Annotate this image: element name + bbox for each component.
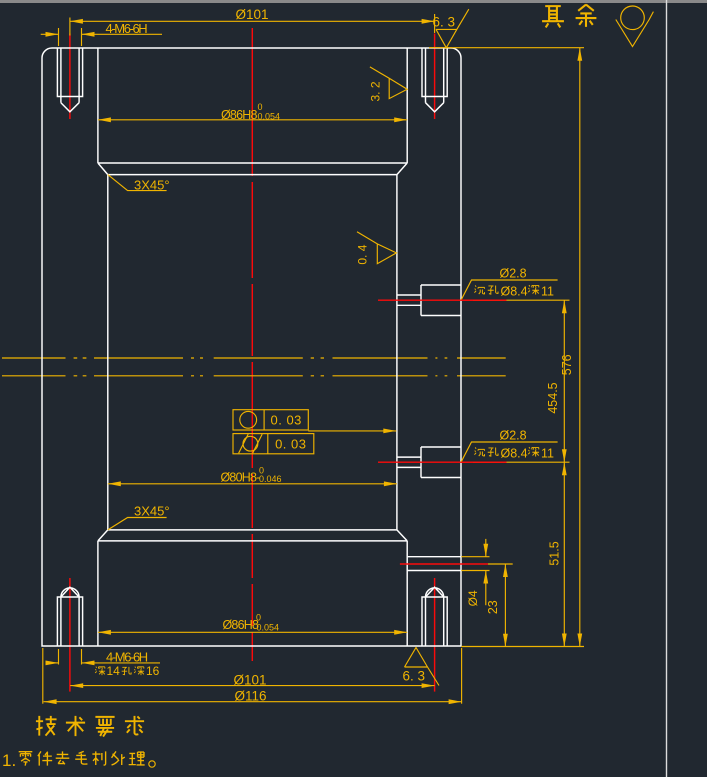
- side hole 1: Ø2.8 with counterbore Ø8.4 (white): [397, 285, 461, 316]
- svg-text:Ø80H8-: Ø80H8-: [221, 471, 261, 485]
- dimension Ø116 (bottom): [43, 648, 462, 704]
- M6 tapped hole top-left: [57, 48, 82, 112]
- dimension 454.5 and 51.5 (right chained): [546, 300, 564, 646]
- surface finish 6.3 (bottom face): [403, 648, 440, 686]
- svg-text:11: 11: [541, 284, 554, 298]
- bore Ø86 top-left wall: [97, 48, 99, 163]
- dimension Ø101 (top): [70, 7, 435, 36]
- dimension 23 (side hole 3 to bottom): [486, 564, 513, 647]
- svg-text:3X45°: 3X45°: [134, 504, 170, 519]
- bore Ø86 top-right wall: [406, 48, 408, 163]
- surface finish 3.2 (Ø86 top bore wall): [368, 67, 407, 102]
- svg-text:Ø86H8: Ø86H8: [223, 618, 259, 632]
- svg-text:Ø86H8: Ø86H8: [221, 108, 257, 122]
- dimension 576 (right overall): [560, 48, 580, 647]
- side hole 3: Ø4 (white): [407, 557, 461, 571]
- svg-text:4-M6-6H: 4-M6-6H: [106, 650, 148, 665]
- bore Ø80 right wall: [396, 175, 398, 530]
- svg-text:0. 4: 0. 4: [356, 244, 370, 264]
- svg-text:0.054: 0.054: [258, 112, 281, 122]
- feature control frame: cylindricity 0.03: [233, 434, 314, 454]
- top grey window bar: [0, 0, 707, 3]
- horizontal centerline pair (yellow, center-dash) lower: [2, 375, 506, 377]
- title 技术要求 (technical requirements): [36, 716, 144, 737]
- label side hole 2: Ø2.8 / 沉孔Ø8.4深11: [461, 429, 570, 463]
- svg-text:0: 0: [258, 102, 263, 112]
- bore Ø80 left wall: [107, 175, 109, 530]
- svg-text:1.: 1.: [2, 751, 16, 770]
- side hole 1 centerline (red): [378, 299, 507, 301]
- svg-text:Ø8.4: Ø8.4: [501, 284, 528, 298]
- svg-text:0. 03: 0. 03: [270, 413, 301, 428]
- svg-text:6. 3: 6. 3: [433, 15, 456, 30]
- counterbore top face line (bottom): [98, 540, 407, 542]
- chamfer bottom-left: [98, 530, 108, 541]
- svg-text:0.054: 0.054: [257, 623, 280, 633]
- svg-text:3X45°: 3X45°: [134, 178, 170, 193]
- side hole 2 centerline (red): [378, 461, 507, 463]
- svg-text:0. 03: 0. 03: [275, 437, 306, 452]
- surface symbol after 其余 (circle + check): [616, 12, 654, 47]
- M6 tapped hole top-right: [422, 48, 447, 112]
- note 1. 零件去毛刺处理。: [2, 751, 155, 770]
- svg-text:576: 576: [560, 354, 574, 375]
- svg-text:3. 2: 3. 2: [368, 81, 382, 101]
- dimension Ø80H8 (middle): [108, 466, 397, 485]
- svg-text:Ø101: Ø101: [233, 673, 266, 688]
- bolt hole centerline top-left (red): [69, 34, 71, 120]
- svg-text:6. 3: 6. 3: [403, 669, 426, 684]
- svg-text:0: 0: [256, 613, 261, 623]
- svg-text:23: 23: [486, 600, 500, 614]
- dimension 4-M6-6H 深14孔深16 (bottom): [46, 649, 160, 678]
- svg-text:Ø116: Ø116: [234, 689, 266, 704]
- svg-text:4-M6-6H: 4-M6-6H: [106, 21, 148, 36]
- side hole 2: Ø2.8 with counterbore Ø8.4 (white): [397, 447, 461, 478]
- chamfer top-left: [98, 163, 108, 175]
- svg-text:Ø101: Ø101: [235, 7, 268, 22]
- counterbore bottom face line (top): [98, 162, 407, 164]
- svg-text:454.5: 454.5: [546, 382, 560, 413]
- chamfer edge line (bottom): [108, 529, 397, 531]
- feature control frame: circularity 0.03: [233, 410, 308, 430]
- bolt hole centerline top-right (red): [434, 34, 436, 120]
- part axis centerline (red, vertical): [251, 28, 253, 661]
- bolt hole centerline bottom-right (red): [434, 578, 436, 692]
- dimension Ø101 (bottom): [70, 673, 434, 688]
- extension line top face to 576 dim: [429, 47, 584, 49]
- bottom face extension line to 576 dim: [461, 646, 584, 648]
- label side hole 1: Ø2.8 / 沉孔Ø8.4深11: [461, 267, 570, 301]
- M6 tapped hole bottom-right: [422, 587, 447, 646]
- M6 tapped hole bottom-left: [57, 587, 82, 646]
- dimension Ø4 (side hole 3): [461, 539, 489, 606]
- surface finish 0.4 (Ø80 bore wall): [356, 232, 397, 265]
- chamfer note 3X45° (top): [108, 175, 170, 193]
- svg-text:16: 16: [146, 664, 160, 678]
- svg-text:14: 14: [107, 664, 121, 678]
- svg-text:0.046: 0.046: [259, 474, 282, 484]
- bore Ø86 bottom-right wall: [406, 541, 408, 646]
- dimension Ø86H8 (bottom): [98, 613, 407, 633]
- outer profile of part (white): [42, 48, 461, 646]
- dimension Ø86H8 (top): [98, 102, 407, 122]
- horizontal centerline pair (yellow, center-dash) upper: [2, 357, 506, 359]
- leader from control frames to bore: [308, 430, 396, 432]
- surface finish 6.3 (top face): [433, 9, 469, 48]
- chamfer bottom-right: [397, 530, 407, 541]
- svg-text:51.5: 51.5: [547, 541, 561, 565]
- dimension 4-M6-6H (top): [41, 21, 162, 46]
- side hole 3 centerline (red): [400, 563, 488, 565]
- chamfer edge line (top): [108, 174, 397, 176]
- svg-text:Ø8.4: Ø8.4: [501, 446, 528, 460]
- svg-text:Ø4: Ø4: [466, 590, 480, 606]
- svg-text:Ø2.8: Ø2.8: [500, 267, 527, 281]
- bolt hole centerline bottom-left (red): [69, 578, 71, 692]
- svg-text:Ø2.8: Ø2.8: [500, 429, 527, 443]
- right frame border line: [666, 0, 668, 777]
- chamfer note 3X45° (bottom): [108, 504, 170, 530]
- chamfer top-right: [397, 163, 407, 175]
- bore Ø86 bottom-left wall: [97, 541, 99, 646]
- note 其余 (rest surfaces): [542, 5, 596, 28]
- svg-text:11: 11: [541, 446, 554, 460]
